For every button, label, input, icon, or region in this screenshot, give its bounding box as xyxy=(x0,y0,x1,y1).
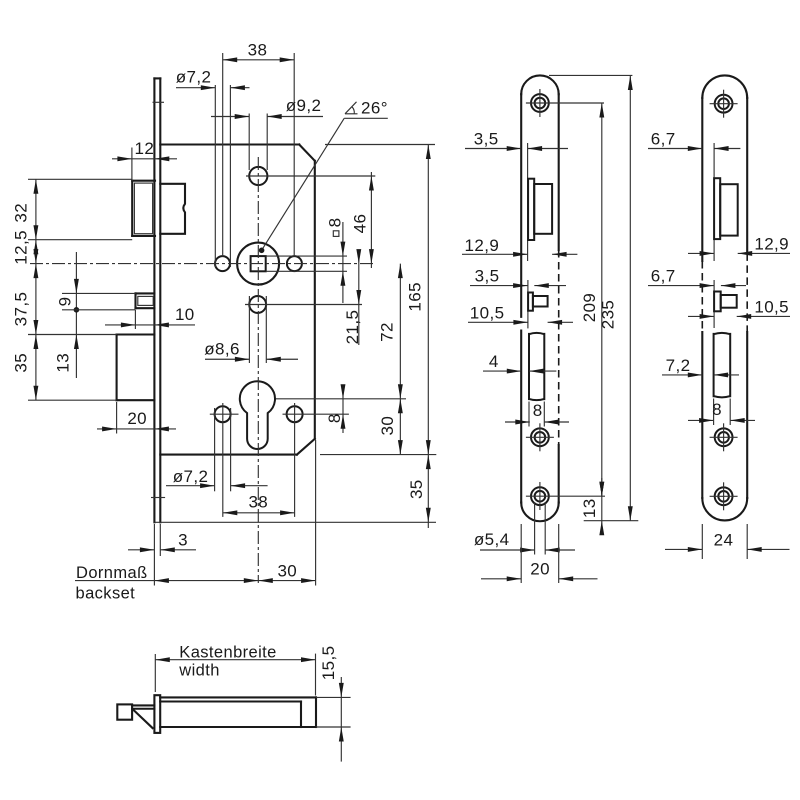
svg-text:15,5: 15,5 xyxy=(319,646,338,681)
svg-text:20: 20 xyxy=(530,560,550,579)
svg-text:72: 72 xyxy=(378,322,397,342)
svg-text:37,5: 37,5 xyxy=(12,292,31,327)
svg-text:3,5: 3,5 xyxy=(474,130,499,149)
svg-text:Kastenbreite: Kastenbreite xyxy=(179,644,276,662)
svg-text:8: 8 xyxy=(533,401,543,420)
svg-text:10: 10 xyxy=(175,305,195,324)
svg-text:backset: backset xyxy=(76,585,136,603)
svg-text:ø7,2: ø7,2 xyxy=(176,68,212,87)
svg-text:35: 35 xyxy=(12,353,31,373)
svg-text:165: 165 xyxy=(406,282,425,312)
svg-text:30: 30 xyxy=(378,416,397,436)
svg-text:209: 209 xyxy=(580,293,599,323)
svg-text:12,5: 12,5 xyxy=(12,230,31,265)
svg-text:235: 235 xyxy=(599,300,618,330)
svg-text:3,5: 3,5 xyxy=(475,267,500,286)
svg-text:Dornmaß: Dornmaß xyxy=(76,564,148,582)
svg-text:7,2: 7,2 xyxy=(666,356,691,375)
svg-text:13: 13 xyxy=(54,353,73,373)
svg-text:8: 8 xyxy=(325,413,344,423)
svg-text:12: 12 xyxy=(135,139,155,158)
svg-text:38: 38 xyxy=(248,493,268,512)
svg-text:10,5: 10,5 xyxy=(470,303,505,322)
svg-text:12,9: 12,9 xyxy=(465,236,500,255)
svg-text:3: 3 xyxy=(178,531,188,550)
svg-text:8: 8 xyxy=(326,218,345,228)
svg-text:24: 24 xyxy=(714,531,734,550)
svg-text:13: 13 xyxy=(580,498,599,518)
svg-text:30: 30 xyxy=(277,562,297,581)
svg-text:35: 35 xyxy=(407,479,426,499)
svg-text:32: 32 xyxy=(12,203,31,223)
svg-text:ø5,4: ø5,4 xyxy=(474,530,510,549)
svg-text:21,5: 21,5 xyxy=(343,310,362,345)
svg-text:10,5: 10,5 xyxy=(754,297,789,316)
svg-text:8: 8 xyxy=(712,400,722,419)
svg-text:ø8,6: ø8,6 xyxy=(204,340,240,359)
svg-text:4: 4 xyxy=(489,352,499,371)
svg-text:width: width xyxy=(178,662,220,680)
svg-text:ø7,2: ø7,2 xyxy=(173,467,209,486)
svg-text:9: 9 xyxy=(56,297,75,307)
svg-text:26°: 26° xyxy=(361,99,388,118)
svg-text:12,9: 12,9 xyxy=(754,234,789,253)
svg-text:6,7: 6,7 xyxy=(651,130,676,149)
svg-text:38: 38 xyxy=(248,41,268,60)
svg-text:ø9,2: ø9,2 xyxy=(286,96,322,115)
svg-text:20: 20 xyxy=(127,409,147,428)
svg-text:6,7: 6,7 xyxy=(651,267,676,286)
svg-text:46: 46 xyxy=(351,214,370,234)
